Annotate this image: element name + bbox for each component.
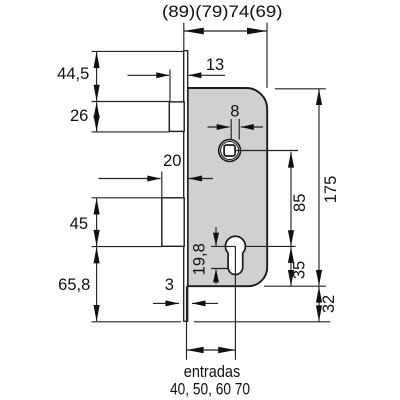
svg-text:44,5: 44,5 <box>57 65 89 83</box>
svg-text:8: 8 <box>230 102 239 120</box>
svg-text:32: 32 <box>320 295 338 313</box>
svg-text:13: 13 <box>206 56 224 74</box>
svg-text:3: 3 <box>165 276 174 294</box>
svg-text:26: 26 <box>70 107 88 125</box>
svg-text:175: 175 <box>322 176 340 204</box>
svg-text:35: 35 <box>291 261 309 279</box>
svg-text:(89)(79)74(69): (89)(79)74(69) <box>162 3 283 21</box>
svg-text:45: 45 <box>70 215 88 233</box>
svg-text:19,8: 19,8 <box>190 243 208 275</box>
svg-text:20: 20 <box>163 152 181 170</box>
svg-text:85: 85 <box>291 194 309 212</box>
svg-text:65,8: 65,8 <box>58 276 90 294</box>
svg-text:entradas: entradas <box>184 363 241 381</box>
svg-text:40, 50, 60 70: 40, 50, 60 70 <box>170 380 250 398</box>
